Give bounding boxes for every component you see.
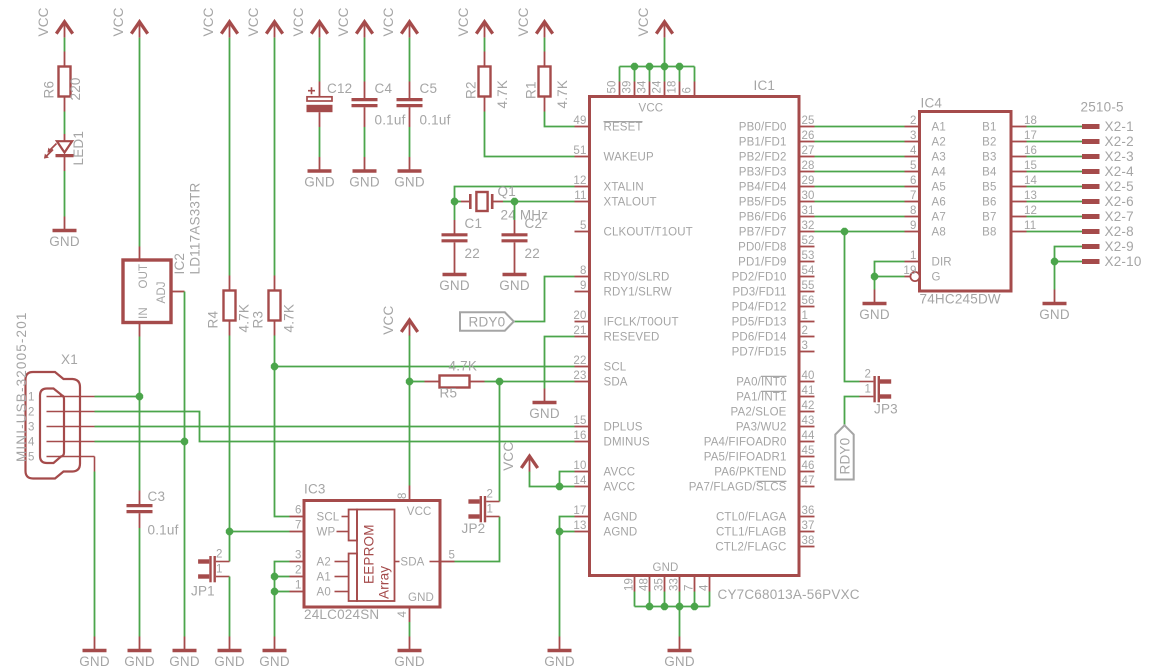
svg-text:GND: GND xyxy=(124,654,155,669)
svg-text:WP: WP xyxy=(317,527,336,539)
IC4 pin 7 A6 xyxy=(905,201,920,203)
svg-text:36: 36 xyxy=(802,505,815,517)
svg-text:B3: B3 xyxy=(982,152,996,164)
svg-text:X2-2: X2-2 xyxy=(1105,134,1134,149)
wire VCC to AVCC junction xyxy=(530,472,560,487)
svg-text:32: 32 xyxy=(802,220,815,232)
wire X1 pin3 D+ to DPLUS xyxy=(95,426,575,428)
IC1 pin 21 RESEVED xyxy=(575,336,590,338)
ground for C2 xyxy=(514,261,516,275)
wire PB3 to IC4 A4 xyxy=(815,171,905,173)
svg-text:MINI-USB-32005-201: MINI-USB-32005-201 xyxy=(14,311,29,462)
svg-text:AVCC: AVCC xyxy=(604,467,636,479)
wire VBUS down to C3 xyxy=(139,397,141,491)
wire PB0 to IC4 A1 xyxy=(815,126,905,128)
svg-text:G: G xyxy=(932,272,941,284)
svg-text:9: 9 xyxy=(580,280,587,292)
svg-text:PD0/FD8: PD0/FD8 xyxy=(738,242,786,254)
wire GND bus to ground xyxy=(679,607,681,637)
IC1 pin 1 PD5/FD13 xyxy=(799,321,815,323)
ground for IC3 address pins xyxy=(274,637,276,651)
svg-text:25: 25 xyxy=(802,115,815,127)
svg-text:LD117AS33TR: LD117AS33TR xyxy=(188,182,203,274)
svg-text:GND: GND xyxy=(439,278,470,293)
wire SCL net to pin 22 xyxy=(275,366,575,368)
svg-text:37: 37 xyxy=(802,520,815,532)
IC4 pin 8 A7 xyxy=(905,216,920,218)
svg-text:X2-10: X2-10 xyxy=(1105,254,1142,269)
svg-text:29: 29 xyxy=(802,175,815,187)
svg-text:2: 2 xyxy=(216,549,223,561)
wire R6 to LED1 xyxy=(64,112,66,135)
IC4 pin 2 A1 xyxy=(905,126,920,128)
overline SLCS xyxy=(757,480,787,482)
svg-text:EEPROM: EEPROM xyxy=(362,524,377,584)
svg-text:IFCLK/T0OUT: IFCLK/T0OUT xyxy=(604,317,679,329)
svg-text:R5: R5 xyxy=(440,386,458,401)
node A0 junction xyxy=(271,588,278,595)
wire pin 8 RDY0/SLRD to flag xyxy=(514,277,575,322)
svg-text:50: 50 xyxy=(607,80,619,93)
IC1 pin 31 PB6/FD6 xyxy=(799,216,815,218)
svg-text:PA6/PKTEND: PA6/PKTEND xyxy=(714,467,786,479)
svg-text:IC4: IC4 xyxy=(921,96,943,111)
svg-text:33: 33 xyxy=(669,578,681,591)
svg-text:WAKEUP: WAKEUP xyxy=(604,152,654,164)
IC1 pin 55 PD3/FD11 xyxy=(799,291,815,293)
IC1 pin 10 AVCC xyxy=(575,471,590,473)
svg-text:IC2: IC2 xyxy=(172,253,187,275)
IC3 pin 1 A0 xyxy=(290,591,305,593)
svg-text:10: 10 xyxy=(573,460,586,472)
svg-text:VCC: VCC xyxy=(636,7,651,36)
wire VCC to R6 xyxy=(64,38,66,52)
svg-text:220: 220 xyxy=(68,77,83,100)
wire R1 to RESET pin 49 xyxy=(545,112,575,127)
node GND bus junction xyxy=(661,603,668,610)
IC1 pin 52 PD0/FD8 xyxy=(799,246,815,248)
IC1 top VCC pins 50 39 34 24 18 6 xyxy=(619,82,621,97)
ground for IC2 ADJ xyxy=(184,637,186,651)
capacitor C12 (polarized) xyxy=(319,82,321,97)
svg-text:RDY0: RDY0 xyxy=(469,315,506,330)
wire B1 to X2-1 xyxy=(1027,126,1083,128)
svg-text:R1: R1 xyxy=(524,81,539,99)
svg-text:C4: C4 xyxy=(375,81,393,96)
IC1 pin 2 PD6/FD14 xyxy=(799,336,815,338)
svg-text:42: 42 xyxy=(802,400,815,412)
wire B2 to X2-2 xyxy=(1027,141,1083,143)
wire B8 to X2-8 xyxy=(1027,231,1083,233)
IC1 pin 37 CTL1/FLAGB xyxy=(799,531,815,533)
svg-text:X2-3: X2-3 xyxy=(1105,149,1134,164)
svg-text:PA2/SLOE: PA2/SLOE xyxy=(731,407,787,419)
svg-text:26: 26 xyxy=(802,130,815,142)
svg-text:16: 16 xyxy=(573,430,586,442)
svg-text:4: 4 xyxy=(699,584,711,591)
wire DIR to G junction xyxy=(875,262,905,277)
wire VCC to C4 xyxy=(364,38,366,82)
IC1 pin 53 PD1/FD9 xyxy=(799,261,815,263)
pad X2-8 xyxy=(1082,229,1100,234)
IC1 pin 46 PA6/PKTEND xyxy=(799,471,815,473)
node WP junction xyxy=(226,528,233,535)
svg-text:52: 52 xyxy=(802,235,815,247)
ground for AGND xyxy=(559,637,561,651)
svg-text:34: 34 xyxy=(637,80,649,94)
svg-text:SCL: SCL xyxy=(317,512,340,524)
pad X2-9 xyxy=(1082,244,1100,249)
svg-text:PB6/FD6: PB6/FD6 xyxy=(739,212,787,224)
svg-text:0.1uf: 0.1uf xyxy=(375,113,406,128)
node VBUS junction xyxy=(136,393,143,400)
svg-text:PB3/FD3: PB3/FD3 xyxy=(739,167,787,179)
svg-text:0.1uf: 0.1uf xyxy=(148,523,179,538)
wire IC3 GND pin to ground xyxy=(409,622,411,637)
svg-text:R2: R2 xyxy=(464,81,479,99)
svg-text:21: 21 xyxy=(573,325,586,337)
ground for RESEVED xyxy=(544,389,546,403)
svg-text:74HC245DW: 74HC245DW xyxy=(920,292,1001,307)
wire XTALIN to crystal xyxy=(455,187,575,202)
svg-text:Q1: Q1 xyxy=(498,184,516,199)
svg-text:PD6/FD14: PD6/FD14 xyxy=(732,332,787,344)
svg-text:PA7/FLAGD/SLCS: PA7/FLAGD/SLCS xyxy=(689,482,787,494)
svg-text:CY7C68013A-56PVXC: CY7C68013A-56PVXC xyxy=(718,587,860,602)
svg-text:ADJ: ADJ xyxy=(156,281,168,303)
svg-text:4.7K: 4.7K xyxy=(237,304,252,333)
svg-text:X2-4: X2-4 xyxy=(1105,164,1135,179)
IC1 pin 40 PA0/INT0 xyxy=(799,381,815,383)
svg-text:GND: GND xyxy=(259,654,290,669)
node GND bus junction xyxy=(691,603,698,610)
wire JP1 pin 1 to GND xyxy=(229,577,231,637)
wire PB4 to IC4 A5 xyxy=(815,186,905,188)
svg-text:PB4/FD4: PB4/FD4 xyxy=(739,182,787,194)
svg-text:A6: A6 xyxy=(932,197,946,209)
IC1 pin 23 SDA xyxy=(575,381,590,383)
svg-text:GND: GND xyxy=(499,278,530,293)
svg-text:3: 3 xyxy=(910,130,917,142)
svg-text:24LC024SN: 24LC024SN xyxy=(304,607,379,622)
ground for C1 xyxy=(454,261,456,275)
svg-text:DMINUS: DMINUS xyxy=(604,437,650,449)
LED LED1 xyxy=(64,134,66,141)
svg-text:CTL1/FLAGB: CTL1/FLAGB xyxy=(716,527,787,539)
IC1 pin 56 PD4/FD12 xyxy=(799,306,815,308)
svg-text:7: 7 xyxy=(684,584,696,591)
svg-text:40: 40 xyxy=(802,370,815,382)
svg-text:56: 56 xyxy=(802,295,815,307)
svg-text:PA3/WU2: PA3/WU2 xyxy=(736,422,787,434)
svg-text:A0: A0 xyxy=(317,587,331,599)
svg-text:SDA: SDA xyxy=(400,557,424,569)
wire VCC to R3 xyxy=(274,38,276,276)
wire B5 to X2-5 xyxy=(1027,186,1083,188)
svg-text:VCC: VCC xyxy=(381,306,396,335)
svg-text:B2: B2 xyxy=(982,137,996,149)
wire IC3 SDA to JP2 net xyxy=(455,517,500,562)
wire C12 to GND xyxy=(319,127,321,157)
node PB7 junction xyxy=(841,228,848,235)
svg-text:JP3: JP3 xyxy=(874,402,898,417)
wire VCC to C12 xyxy=(319,38,321,82)
capacitor C5 0.1uf xyxy=(409,82,411,100)
wire GND bus below IC1 xyxy=(635,606,710,608)
IC4 pin 9 A8 xyxy=(905,231,920,233)
svg-text:A4: A4 xyxy=(932,167,947,179)
IC3 pin 4 GND xyxy=(409,607,411,622)
overline INT0 xyxy=(761,375,787,377)
svg-text:4.7K: 4.7K xyxy=(495,80,510,109)
wire AVCC to pin 14 xyxy=(560,486,575,488)
node VCC bus junction xyxy=(631,63,638,70)
IC1 pin 54 PD2/FD10 xyxy=(799,276,815,278)
svg-text:16: 16 xyxy=(1024,145,1037,157)
node DIR/G junction xyxy=(871,273,878,280)
power VCC supply for R2 xyxy=(476,22,492,34)
svg-text:GND: GND xyxy=(169,654,200,669)
wire IC2 IN to VBUS xyxy=(139,337,141,397)
wire VCC to R4 xyxy=(229,38,231,276)
node AGND junction xyxy=(556,528,563,535)
IC1 pin 25 PB0/FD0 xyxy=(799,126,815,128)
power VCC supply for R4 xyxy=(221,22,237,34)
svg-text:SCL: SCL xyxy=(604,362,627,374)
svg-text:GND: GND xyxy=(394,654,425,669)
wire X1 pin5 shield to GND xyxy=(94,457,96,472)
svg-text:VCC: VCC xyxy=(111,7,126,36)
pad X2-10 xyxy=(1082,259,1100,264)
svg-text:54: 54 xyxy=(802,265,816,277)
svg-text:2: 2 xyxy=(295,565,302,577)
svg-text:IC1: IC1 xyxy=(754,78,776,93)
svg-text:4.7K: 4.7K xyxy=(555,80,570,109)
svg-text:RDY0: RDY0 xyxy=(838,438,853,475)
IC IC1 CY7C68013A-56PVXC xyxy=(590,97,800,576)
svg-text:C5: C5 xyxy=(420,81,438,96)
jumper JP3 xyxy=(873,376,875,402)
wire X2 ground net down xyxy=(1054,262,1056,290)
svg-text:IC3: IC3 xyxy=(304,482,326,497)
svg-text:1: 1 xyxy=(910,250,917,262)
svg-text:GND: GND xyxy=(304,174,335,189)
IC4 pin 16 B3 xyxy=(1011,156,1027,158)
wire JP3 pin 1 to RDY0 flag xyxy=(845,397,860,426)
wire LED1 to GND xyxy=(64,171,66,217)
node XTALOUT junction xyxy=(511,198,518,205)
svg-text:4.7K: 4.7K xyxy=(449,359,478,374)
svg-text:14: 14 xyxy=(1024,175,1038,187)
ground for X2 xyxy=(1054,290,1056,304)
wire crystal to C2 xyxy=(514,202,516,221)
svg-text:GND: GND xyxy=(544,654,575,669)
svg-text:DIR: DIR xyxy=(932,257,952,269)
svg-text:7: 7 xyxy=(295,520,302,532)
IC1 pin 17 AGND xyxy=(575,516,590,518)
power VCC supply for C12 xyxy=(311,22,327,34)
ground for C12 xyxy=(319,157,321,171)
IC IC4 74HC245DW xyxy=(920,112,1012,292)
IC1 pin 45 PA5/FIFOADR1 xyxy=(799,456,815,458)
IC1 pin 5 CLKOUT/T1OUT xyxy=(575,231,590,233)
svg-text:A3: A3 xyxy=(932,152,946,164)
svg-text:RDY1/SLRW: RDY1/SLRW xyxy=(604,287,672,299)
svg-text:A2: A2 xyxy=(932,137,946,149)
svg-text:CTL0/FLAGA: CTL0/FLAGA xyxy=(716,512,787,524)
jumper JP2 xyxy=(480,496,482,522)
IC4 pin 12 B7 xyxy=(1011,216,1027,218)
IC1 pin 29 PB4/FD4 xyxy=(799,186,815,188)
pad X2-6 xyxy=(1082,199,1100,204)
svg-text:VCC: VCC xyxy=(336,7,351,36)
wire R3 to SCL net xyxy=(274,336,276,367)
svg-text:PD5/FD13: PD5/FD13 xyxy=(732,317,787,329)
IC4 pin 5 A4 xyxy=(905,171,920,173)
power VCC supply for R6 xyxy=(56,22,72,34)
svg-text:GND: GND xyxy=(79,654,110,669)
pad X2-7 xyxy=(1082,214,1100,219)
IC1 pin 15 DPLUS xyxy=(575,426,590,428)
pin X1-4 xyxy=(47,441,95,443)
IC4 pin 18 B1 xyxy=(1011,126,1027,128)
node VCC bus junction xyxy=(676,63,683,70)
IC1 pin 14 AVCC xyxy=(575,486,590,488)
IC1 pin 16 DMINUS xyxy=(575,441,590,443)
svg-text:A7: A7 xyxy=(932,212,946,224)
svg-text:DPLUS: DPLUS xyxy=(604,422,643,434)
wire C3 to GND xyxy=(139,528,141,637)
svg-text:PB1/FD1: PB1/FD1 xyxy=(739,137,787,149)
node A1 junction xyxy=(271,573,278,580)
svg-text:RESEVED: RESEVED xyxy=(604,332,660,344)
svg-text:44: 44 xyxy=(802,430,816,442)
IC1 pin 20 IFCLK/T0OUT xyxy=(575,321,590,323)
svg-text:RESET: RESET xyxy=(604,122,643,134)
IC4 pin 15 B4 xyxy=(1011,171,1027,173)
pin X1-5 xyxy=(47,456,95,458)
svg-text:4: 4 xyxy=(397,611,409,618)
svg-text:VCC: VCC xyxy=(381,7,396,36)
wire ID node down to GND xyxy=(184,442,186,637)
IC1 pin 47 PA7/FLAGD/SLCS xyxy=(799,486,815,488)
svg-text:51: 51 xyxy=(573,145,586,157)
svg-text:8: 8 xyxy=(910,205,917,217)
svg-text:IN: IN xyxy=(138,307,150,319)
svg-text:22: 22 xyxy=(573,355,586,367)
wire VCC to SDA pullup junction xyxy=(409,336,411,382)
svg-text:38: 38 xyxy=(802,535,815,547)
wire B7 to X2-7 xyxy=(1027,216,1083,218)
resistor R2 4.7K xyxy=(479,67,491,97)
svg-text:46: 46 xyxy=(802,460,815,472)
wire PB1 to IC4 A2 xyxy=(815,141,905,143)
svg-text:55: 55 xyxy=(802,280,815,292)
wire X2-10 to ground net xyxy=(1055,261,1083,263)
svg-text:X1: X1 xyxy=(61,352,78,367)
svg-text:GND: GND xyxy=(408,592,434,604)
pad X2-1 xyxy=(1082,124,1100,129)
svg-text:VCC: VCC xyxy=(639,103,664,115)
svg-text:OUT: OUT xyxy=(138,264,150,289)
svg-text:28: 28 xyxy=(802,160,815,172)
IC1 pin 49 RESET xyxy=(575,126,590,128)
svg-text:1: 1 xyxy=(802,310,809,322)
svg-text:0.1uf: 0.1uf xyxy=(420,113,451,128)
IC1 pin 36 CTL0/FLAGA xyxy=(799,516,815,518)
svg-text:GND: GND xyxy=(349,174,380,189)
pin X1-1 xyxy=(47,396,95,398)
power VCC supply for IC1 xyxy=(656,22,672,34)
svg-text:JP1: JP1 xyxy=(191,584,215,599)
IC1 pin 9 RDY1/SLRW xyxy=(575,291,590,293)
svg-text:27: 27 xyxy=(802,145,815,157)
svg-text:VCC: VCC xyxy=(407,506,432,518)
svg-text:6: 6 xyxy=(295,505,302,517)
pad X2-2 xyxy=(1082,139,1100,144)
svg-text:VCC: VCC xyxy=(456,7,471,36)
svg-text:VCC: VCC xyxy=(291,7,306,36)
svg-text:53: 53 xyxy=(802,250,815,262)
ground for LED1 xyxy=(64,217,66,231)
wire B6 to X2-6 xyxy=(1027,201,1083,203)
svg-text:18: 18 xyxy=(667,80,679,93)
svg-text:17: 17 xyxy=(1024,130,1037,142)
svg-text:VCC: VCC xyxy=(501,442,516,471)
svg-text:3: 3 xyxy=(295,550,302,562)
voltage regulator IC2 LD117AS33TR xyxy=(123,260,171,323)
IC4 pin 3 A2 xyxy=(905,141,920,143)
svg-text:8: 8 xyxy=(397,492,409,499)
node XTALIN junction xyxy=(451,198,458,205)
overline INT1 xyxy=(761,390,787,392)
wire VCC to bus xyxy=(664,38,666,67)
IC4 pin 6 A5 xyxy=(905,186,920,188)
svg-text:VCC: VCC xyxy=(201,7,216,36)
IC3 pin 6 SCL xyxy=(290,516,305,518)
wire AVCC to pin 10 xyxy=(560,472,575,487)
svg-text:PD4/FD12: PD4/FD12 xyxy=(732,302,787,314)
pin wire R6 bottom xyxy=(64,97,66,112)
svg-text:GND: GND xyxy=(1039,307,1070,322)
wire VCC to R1 xyxy=(544,38,546,52)
net flag RDY0 (horizontal) xyxy=(460,312,514,330)
IC1 pin 51 WAKEUP xyxy=(575,156,590,158)
svg-text:7: 7 xyxy=(910,190,917,202)
svg-text:GND: GND xyxy=(214,654,245,669)
wire DIR/G to GND xyxy=(874,277,876,290)
svg-text:PB5/FD5: PB5/FD5 xyxy=(739,197,787,209)
svg-text:C2: C2 xyxy=(525,216,543,231)
svg-text:1: 1 xyxy=(295,580,302,592)
svg-text:1: 1 xyxy=(486,504,493,516)
svg-text:11: 11 xyxy=(1024,220,1036,232)
svg-text:PA0/INT0: PA0/INT0 xyxy=(736,377,786,389)
capacitor C1 22 xyxy=(454,220,456,235)
wire X2-9 to ground net xyxy=(1055,247,1083,262)
svg-text:PD7/FD15: PD7/FD15 xyxy=(732,347,787,359)
svg-text:X2-6: X2-6 xyxy=(1105,194,1134,209)
IC4 pin 4 A3 xyxy=(905,156,920,158)
ground for JP1 xyxy=(229,637,231,651)
wire X1 pin2 D- jog to DMINUS xyxy=(95,412,575,442)
IC1 pin 26 PB1/FD1 xyxy=(799,141,815,143)
power VCC supply for R1 xyxy=(536,22,552,34)
svg-text:PB0/FD0: PB0/FD0 xyxy=(739,122,787,134)
svg-text:30: 30 xyxy=(802,190,815,202)
svg-text:1: 1 xyxy=(864,384,871,396)
svg-text:2: 2 xyxy=(486,489,493,501)
